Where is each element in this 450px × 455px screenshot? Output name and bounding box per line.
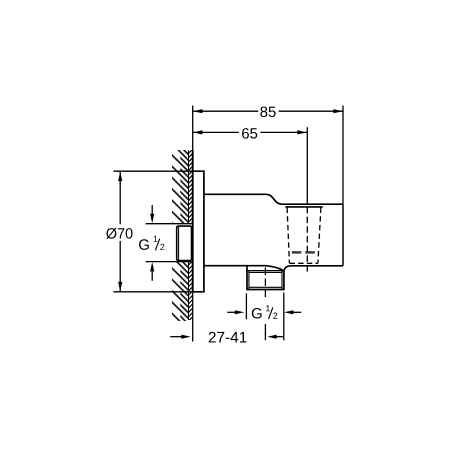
dimension d70 text [106,228,132,239]
dimension 85 extension right [342,106,344,205]
dimension G1/2 bottom right arrow [293,311,301,313]
dimension G1/2 bottom left arrow [227,311,235,313]
wall finish strip hatch lower [189,262,193,320]
dimension d70 arrows [118,172,122,292]
body bottom right with fillet [284,266,343,271]
escutcheon plate [193,171,204,292]
wall masonry hatch upper [172,150,189,224]
outlet stub right edge [283,270,285,290]
dimension G1/2 bottom extension right [283,293,285,341]
dimension 65 arrows [193,130,307,134]
dimension 27-41 left arrow [170,336,181,338]
wall masonry hatch lower [172,262,189,321]
wall union fitting G1/2 [177,226,192,260]
body right end cap [342,204,344,266]
dimension d70 line [119,172,121,292]
outlet bottom line [247,289,284,291]
dimension 65 extension right (cone centerline) [306,127,308,204]
holder cone rim [285,206,322,208]
wall finish strip hatch upper [189,150,193,224]
outlet centerline lower segment [264,324,266,340]
outlet stub left edge [246,266,248,291]
wall masonry short-stroke hatch upper [180,150,188,224]
outlet centerline dashed [264,268,266,300]
dimension 85 line [193,110,343,112]
dimension 65 line [193,131,307,133]
dimension 27-41 text [209,332,247,343]
outlet thread inner rect [249,271,282,290]
dimension d70 extension bottom [113,291,203,293]
dimension 85 arrows [193,109,343,113]
dimension 85 extension left [192,106,194,172]
body top outline [204,194,343,204]
dimension 27-41 right arrow [277,336,284,338]
holder cone bottom dashed [289,262,318,264]
dimension 85 text [260,106,275,117]
holder cone right dashed side [318,208,321,264]
body bottom left and slope to outlet [204,266,284,271]
dimension G1/2 bottom text [252,308,262,319]
holder cone left dashed side [287,208,289,264]
wall strip inner line [188,150,190,320]
dimension d70 extension top [113,170,192,172]
outlet thread top line [247,270,284,272]
wall face line [192,150,194,291]
wall face extension line below (27-41 left extension) [192,292,194,342]
dimension G1/2 left top arrow [151,205,153,214]
fitting chamfer line [178,226,180,260]
fitting thread crest top line / extension [146,223,192,225]
dimension G1/2 left text [139,239,149,250]
fitting thread crest bottom line / extension [146,261,192,263]
holder cone centerline dashed [306,207,308,273]
dimension G1/2 bottom extension left [245,294,247,320]
holder cone heavy hidden hole dash [292,251,316,254]
dimension G1/2 left bottom arrow [151,272,153,281]
wall masonry short-stroke hatch lower [180,262,188,321]
dimension 65 text [242,128,257,139]
